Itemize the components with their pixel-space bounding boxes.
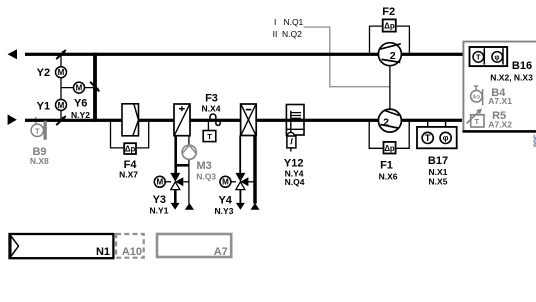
- svg-text:N.Y1: N.Y1: [150, 206, 169, 216]
- svg-text:T: T: [475, 117, 480, 126]
- svg-text:Δp: Δp: [125, 144, 136, 153]
- svg-text:S08: S08: [532, 135, 536, 148]
- svg-text:N.X8: N.X8: [30, 156, 49, 166]
- svg-text:A10: A10: [122, 246, 142, 258]
- svg-text:N.X4: N.X4: [202, 103, 221, 113]
- svg-text:N1: N1: [96, 246, 110, 258]
- svg-text:A7.X1: A7.X1: [488, 96, 512, 106]
- svg-text:II N.Q2: II N.Q2: [273, 29, 303, 39]
- svg-text:T: T: [35, 126, 40, 135]
- svg-text:N.X5: N.X5: [429, 177, 448, 187]
- svg-text:B16: B16: [512, 60, 532, 72]
- svg-text:Y1: Y1: [37, 100, 50, 112]
- svg-text:T: T: [476, 53, 481, 62]
- svg-text:T: T: [207, 132, 212, 141]
- svg-text:Y6: Y6: [74, 97, 87, 109]
- svg-text:A⊙: A⊙: [472, 94, 480, 100]
- svg-text:I N.Q1: I N.Q1: [274, 17, 304, 27]
- svg-text:Δp: Δp: [384, 144, 395, 153]
- svg-text:φ: φ: [494, 54, 499, 61]
- svg-text:2: 2: [383, 117, 389, 129]
- svg-text:N.X1: N.X1: [429, 167, 448, 177]
- svg-text:M: M: [58, 101, 65, 110]
- svg-text:N.Q3: N.Q3: [196, 172, 216, 182]
- svg-text:Y12: Y12: [284, 157, 304, 169]
- svg-text:M: M: [222, 178, 229, 187]
- svg-text:N.Y3: N.Y3: [215, 206, 234, 216]
- svg-text:F2: F2: [382, 6, 395, 18]
- svg-text:N.Y2: N.Y2: [71, 110, 90, 120]
- svg-text:N.X7: N.X7: [119, 169, 138, 179]
- svg-text:Δp: Δp: [384, 22, 395, 31]
- svg-text:B17: B17: [428, 155, 448, 167]
- svg-text:N.X6: N.X6: [379, 171, 398, 181]
- svg-text:Y4: Y4: [218, 194, 232, 206]
- svg-text:Y3: Y3: [153, 194, 166, 206]
- svg-text:A7: A7: [214, 246, 228, 258]
- svg-text:2: 2: [390, 50, 396, 62]
- svg-text:M: M: [58, 68, 65, 77]
- svg-text:Y2: Y2: [37, 67, 50, 79]
- svg-text:N.Q4: N.Q4: [285, 177, 305, 187]
- svg-text:φ: φ: [443, 134, 449, 143]
- svg-text:F1: F1: [380, 160, 393, 172]
- svg-text:M3: M3: [197, 160, 212, 172]
- svg-text:M: M: [156, 178, 163, 187]
- svg-text:A7.X2: A7.X2: [488, 119, 512, 129]
- svg-text:T: T: [425, 133, 431, 144]
- svg-text:N.X2, N.X3: N.X2, N.X3: [490, 72, 533, 82]
- svg-text:M: M: [76, 84, 83, 93]
